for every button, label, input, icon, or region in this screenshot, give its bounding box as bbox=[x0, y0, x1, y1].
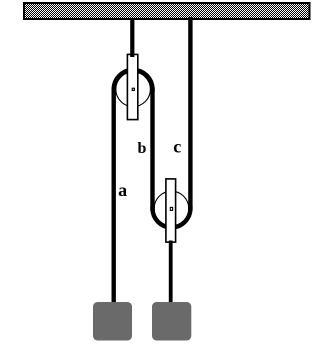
rope wrap over pulley P1 bbox=[114, 70, 153, 89]
pulley P1 bracket bbox=[127, 54, 137, 119]
svg-text:c: c bbox=[173, 137, 181, 157]
rod from ceiling to pulley P1 bbox=[130, 19, 134, 57]
pulley P1 wheel bbox=[116, 72, 151, 107]
pulley P1 axle bbox=[132, 88, 134, 90]
ceiling bbox=[24, 3, 310, 19]
rod from pulley P2 to weight W2 bbox=[169, 241, 173, 303]
weight W1 bbox=[93, 302, 132, 341]
rope b bbox=[150, 89, 154, 208]
weight W2 bbox=[152, 302, 191, 341]
svg-text:a: a bbox=[118, 180, 127, 200]
rope wrap under pulley P2 bbox=[153, 209, 191, 228]
svg-text:b: b bbox=[137, 140, 146, 157]
pulley P2 bracket bbox=[166, 179, 176, 242]
rope c bbox=[188, 20, 192, 209]
pulley P2 wheel bbox=[154, 191, 189, 226]
rope a bbox=[111, 89, 115, 302]
pulley P2 axle bbox=[170, 207, 172, 210]
